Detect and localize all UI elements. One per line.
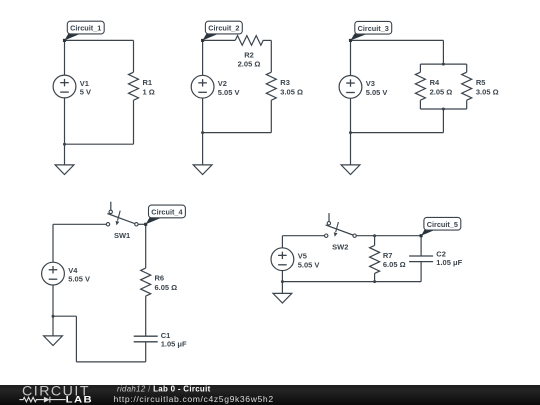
svg-text:R3: R3 xyxy=(280,78,290,87)
svg-text:R4: R4 xyxy=(430,78,440,87)
svg-text:5.05 V: 5.05 V xyxy=(366,88,388,97)
svg-text:R5: R5 xyxy=(476,78,486,87)
svg-text:V4: V4 xyxy=(68,266,78,275)
svg-text:R6: R6 xyxy=(155,274,165,283)
svg-text:R2: R2 xyxy=(244,50,254,59)
svg-text:2.05 Ω: 2.05 Ω xyxy=(430,88,453,97)
svg-text:Circuit_3: Circuit_3 xyxy=(358,24,389,33)
svg-text:Circuit_5: Circuit_5 xyxy=(427,220,458,229)
svg-text:SW1: SW1 xyxy=(114,231,130,240)
svg-text:Circuit_4: Circuit_4 xyxy=(151,208,183,217)
svg-text:Circuit_2: Circuit_2 xyxy=(208,24,239,33)
svg-text:http://circuitlab.com/c4z5g9k3: http://circuitlab.com/c4z5g9k36w5h2 xyxy=(114,394,274,404)
svg-text:ridah12 / Lab 0 - Circuit: ridah12 / Lab 0 - Circuit xyxy=(117,385,211,394)
svg-text:SW2: SW2 xyxy=(332,242,348,251)
svg-text:V5: V5 xyxy=(298,252,307,261)
svg-text:3.05 Ω: 3.05 Ω xyxy=(476,88,499,97)
svg-text:1.05 μF: 1.05 μF xyxy=(436,258,462,267)
svg-text:R1: R1 xyxy=(143,78,153,87)
svg-text:1 Ω: 1 Ω xyxy=(143,88,155,97)
svg-text:1.05 μF: 1.05 μF xyxy=(161,339,187,348)
svg-text:5 V: 5 V xyxy=(80,88,91,97)
svg-text:Circuit_1: Circuit_1 xyxy=(70,24,101,33)
svg-text:3.05 Ω: 3.05 Ω xyxy=(280,88,303,97)
svg-text:2.05 Ω: 2.05 Ω xyxy=(238,60,261,69)
svg-text:6.05 Ω: 6.05 Ω xyxy=(383,260,406,269)
svg-text:5.05 V: 5.05 V xyxy=(218,88,240,97)
svg-text:R7: R7 xyxy=(383,251,393,260)
svg-text:V1: V1 xyxy=(80,79,89,88)
svg-text:V3: V3 xyxy=(366,79,375,88)
svg-text:5.05 V: 5.05 V xyxy=(298,260,320,269)
svg-text:5.05 V: 5.05 V xyxy=(68,275,90,284)
svg-text:LAB: LAB xyxy=(66,396,94,405)
svg-text:V2: V2 xyxy=(218,79,227,88)
svg-text:6.05 Ω: 6.05 Ω xyxy=(155,283,178,292)
svg-text:C2: C2 xyxy=(436,249,446,258)
